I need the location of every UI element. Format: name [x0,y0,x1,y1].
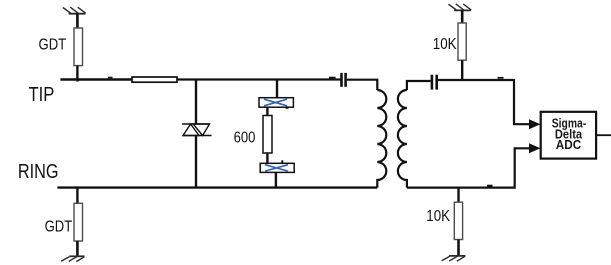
svg-text:RING: RING [18,161,59,183]
svg-text:600: 600 [234,130,256,147]
junction tick bottom-right wire [487,185,493,187]
resistor R3 10K (top) [458,23,466,60]
arrow into ADC (top) [529,119,541,129]
wire TVS branch lower [195,136,197,188]
wire 10K top to secondary top line [461,60,463,80]
svg-text:10K: 10K [433,36,457,53]
ground (chassis) bottom-left [61,256,84,261]
junction tick top-right wire [498,77,504,79]
ground (chassis) bottom-right [442,256,466,261]
wire GDT2 to ground [76,241,79,256]
wire ground to 10K top [461,10,464,23]
arrow into ADC (bottom) [529,143,541,153]
ground (chassis) top-right [448,4,471,10]
transformer T1 primary winding [377,90,386,188]
resistor GDT2 (bottom) [74,203,83,241]
wire T1 secondary bottom line [407,148,530,187]
wire ADC output [596,134,611,136]
capacitor C1 plate left [340,73,343,87]
svg-text:ADC: ADC [556,138,581,152]
wire C2 to ADC top input [438,80,530,124]
svg-text:TIP: TIP [29,84,55,106]
capacitor C2 plate right [435,75,438,90]
capacitor C2 plate left [431,75,434,90]
junction tick before capacitor C1 [329,77,336,79]
wire TIP line middle segment [177,78,341,80]
svg-text:GDT: GDT [45,218,73,235]
TVS bidirectional diode D1 [182,124,212,136]
resistor GDT1 (top) [74,28,83,66]
resistor R4 10K (bottom) [454,202,462,239]
transformer T1 secondary winding [398,90,407,188]
wire 10K bottom to ground [457,240,460,256]
op-amp U1 Sigma-Delta ADC box [541,112,596,159]
capacitor C1 plate right [344,73,347,87]
svg-text:GDT: GDT [39,36,67,53]
wire secondary bottom to 10K bottom [457,188,459,203]
wire RING to GDT2 [76,188,78,204]
wire GDT1 to TIP line [76,66,78,82]
svg-text:10K: 10K [426,208,450,225]
wire ground to GDT1 [76,14,79,29]
resistor R1 (series, TIP line) [132,77,177,82]
junction tick on TIP line [108,77,113,79]
wire F2 to RING line [275,172,277,187]
wire T1 secondary top to C2 [407,81,431,90]
wire F1 to R2 [266,107,268,116]
wire TIP line left segment [60,78,132,81]
label Sigma-Delta ADC [552,117,586,153]
wire R2 to fuse F2 [266,153,268,164]
wire C1 to transformer T1 primary top [347,80,377,90]
wire RING line [57,186,377,188]
wire TVS branch upper [195,80,197,125]
fuse F1 (crossed box, top) [259,98,293,109]
wire 600-branch from TIP to fuse F1 [276,80,278,99]
ground (chassis) top-left [63,7,86,14]
fuse F2 (crossed box, bottom) [260,160,294,172]
resistor R2 600 ohm [263,116,272,154]
